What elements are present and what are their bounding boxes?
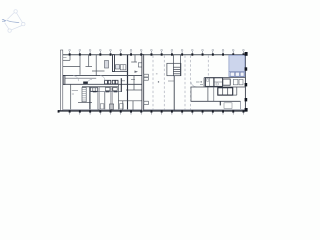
room wall vertical x207.9 — [207, 87, 209, 101]
door swing rect b — [120, 104, 124, 109]
dashed grid line x153 — [152, 56, 154, 111]
scribble annotation — [2, 19, 19, 22]
bathroom block cell wall b — [227, 88, 229, 95]
wire node-bottom to scribble — [5, 23, 9, 29]
wall vertical x89.9 — [89, 87, 91, 110]
fixtures inside blue room — [229, 72, 245, 77]
fixture cluster dark x112-118 — [105, 80, 118, 84]
wall vertical x135 top — [134, 55, 136, 62]
bathroom block cell wall a — [222, 88, 224, 95]
wall stub below cluster — [219, 101, 221, 105]
right exterior wall — [244, 54, 246, 111]
corridor door swing b — [87, 79, 92, 84]
door arc left of cluster — [191, 82, 197, 87]
node circle top — [14, 10, 17, 13]
column stems above wall — [70, 51, 244, 54]
cabinet right row a — [105, 88, 110, 91]
dashed grid line x190.6 — [190, 56, 192, 111]
top exterior wall — [63, 54, 246, 56]
stair/vestibule block at hall top — [167, 55, 181, 76]
hall boundary wall x142.8 (thick) — [142, 55, 144, 111]
closet rect b — [120, 65, 126, 70]
wire node-right to node-bottom — [11, 26, 22, 30]
wall horizontal y71.5 cap — [112, 71, 128, 73]
bathroom b inner — [214, 81, 223, 83]
door swing rect a — [100, 104, 104, 109]
closet rect b divider — [122, 65, 124, 70]
fixture marks — [207, 79, 209, 81]
wall vertical x133 — [132, 101, 134, 110]
corridor room-number dashes — [122, 80, 136, 81]
wall vertical x118.4 — [117, 84, 119, 109]
bottom column row — [58, 110, 245, 114]
room wall vertical x236.8 — [236, 87, 238, 95]
dashed grid line x164 — [163, 56, 165, 111]
wall vertical x111.5 (double) — [111, 87, 112, 110]
wall horizontal y100.8 — [118, 100, 142, 102]
bottom exterior wall — [58, 110, 247, 112]
bottom exterior wall inner line — [63, 108, 246, 110]
cluster left wall x204.1 — [203, 78, 205, 87]
wall horizontal y86.8 — [82, 86, 118, 88]
bathroom block dark — [218, 88, 233, 95]
corridor bottom wall y84.3 — [63, 83, 143, 85]
shaded room (blue) top right — [229, 55, 245, 76]
cabinet row right of stair — [90, 88, 97, 91]
storage rect — [110, 104, 114, 109]
wall vertical x127.5 bottom — [127, 84, 129, 109]
bathroom a — [205, 78, 213, 87]
wall horizontal y66.5 left — [63, 66, 80, 68]
door flag at wall top — [168, 80, 174, 82]
wall horizontal y62 — [131, 61, 137, 63]
bathroom c — [223, 79, 230, 85]
wall horizontal y60 — [63, 59, 70, 61]
service box on hall wall at bottom — [144, 101, 149, 104]
cluster wall vertical x191 — [190, 87, 192, 101]
wall vertical x70.7 — [70, 84, 72, 109]
corridor top wall y75.6 — [63, 75, 143, 77]
columns with stems, grid spacing ~10.23 — [69, 53, 245, 55]
centre dash mark — [72, 93, 74, 95]
wall vertical x104.8 — [104, 92, 106, 110]
wall below stair y102.5 — [78, 102, 92, 104]
utility rect below cluster — [224, 103, 232, 109]
room wall vertical x213.8 — [213, 87, 215, 101]
bathroom a inner — [209, 78, 211, 87]
node circle right — [22, 22, 25, 25]
small cross mark in hall — [156, 73, 158, 75]
wire node-top to node-right — [17, 13, 23, 23]
dash mark b — [200, 84, 203, 86]
closet gray x104.5 — [105, 61, 109, 69]
dashed grid line x208 — [207, 56, 209, 77]
cluster inner wall y87 — [191, 86, 245, 88]
closet rect a — [115, 65, 119, 69]
shaft wall pair A x112.5-114.5 — [113, 55, 115, 72]
cabinet right row b — [113, 88, 117, 91]
top column row — [69, 49, 245, 55]
wall horizontal y90 right — [126, 89, 142, 91]
wall vertical x88.7 — [88, 55, 90, 67]
wall horizontal y57.5 dash — [63, 57, 67, 59]
wall stub cluster to bottom right — [240, 101, 242, 109]
dash mark a — [196, 81, 200, 83]
wall horizontal y71 — [92, 70, 105, 72]
room wall horizontal y95.1 — [233, 94, 237, 96]
stair block — [82, 88, 86, 102]
shaft wall B x127.5 — [127, 55, 129, 85]
threshold dark dashes y91.7 — [93, 91, 118, 93]
interior column dot b — [201, 81, 202, 82]
plumbing rect a — [233, 79, 238, 84]
service boxes on hall wall at corridor height — [144, 74, 149, 77]
right wall nubs — [245, 52, 248, 112]
corridor left stub (dark) — [63, 76, 65, 85]
node circle bottom — [8, 29, 11, 32]
dashed grid line x185 — [184, 56, 186, 111]
closet top right corner of zone — [138, 63, 142, 67]
corridor door swing a — [73, 76, 79, 82]
dark blob over stair — [83, 82, 88, 84]
left exterior wall (double line bar) — [61, 50, 63, 111]
arrow mark in living room — [135, 71, 139, 73]
wall horizontal y66.5 mid — [86, 66, 93, 68]
hall dividing wall x174.2 — [173, 76, 175, 111]
faint concept sketch top-left — [5, 10, 25, 33]
wire scribble to node-top — [7, 13, 13, 19]
wall vertical x96.2 — [95, 55, 97, 76]
wall vertical x80 — [79, 55, 81, 75]
cluster top wall y77.6 — [204, 77, 245, 79]
party wall vertical x98.4 bottom (double) — [98, 87, 99, 110]
interior column dot a — [158, 81, 159, 82]
door arc mark y90.5 — [72, 90, 78, 92]
bathroom b — [214, 78, 223, 87]
column head circles — [69, 49, 245, 51]
cluster bottom wall y101.3 — [191, 100, 241, 102]
wall vertical x122.8 — [122, 101, 124, 110]
corridor second wall y78.2 — [63, 77, 96, 79]
wall vertical x121.3 dark — [120, 78, 122, 92]
wall horizontal y91.7 with door gaps — [90, 91, 121, 93]
wall vertical x134 — [133, 76, 135, 90]
plumbing rect b — [239, 79, 243, 84]
wall vertical x70 top — [69, 55, 71, 61]
corridor door swing c — [100, 76, 105, 81]
